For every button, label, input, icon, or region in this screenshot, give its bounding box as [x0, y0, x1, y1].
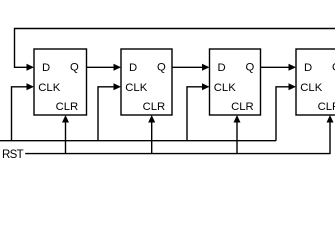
svg-text:CLK: CLK: [125, 82, 147, 94]
D flip-flop FF3: [210, 49, 261, 115]
wire: RST net to FF4 CLR: [25, 115, 333, 154]
wire: clock bus riser to FF2 CLK: [98, 83, 121, 140]
wire: FF3 Q to FF4 D: [261, 64, 297, 71]
svg-text:RST: RST: [2, 149, 24, 161]
wire: FF1 Q to FF2 D: [87, 64, 122, 71]
wire: clock bus riser to FF1 CLK: [12, 83, 35, 140]
svg-text:CLR: CLR: [318, 101, 335, 113]
svg-text:CLK: CLK: [38, 82, 60, 94]
svg-text:CLR: CLR: [56, 101, 79, 113]
svg-text:D: D: [42, 62, 50, 74]
svg-text:D: D: [129, 62, 137, 74]
svg-text:Q: Q: [246, 62, 255, 74]
wire: FF2 Q to FF3 D: [172, 64, 210, 71]
wire: clock bus riser to FF4 CLK: [276, 83, 296, 140]
D flip-flop FF4 (clipped at right edge): [296, 49, 335, 115]
svg-text:CLK: CLK: [300, 82, 322, 94]
svg-text:CLK: CLK: [214, 82, 236, 94]
wire: RST riser to FF3 CLR: [234, 115, 241, 154]
svg-text:CLR: CLR: [231, 101, 254, 113]
svg-text:Q: Q: [157, 62, 166, 74]
svg-text:D: D: [304, 62, 312, 74]
D flip-flop FF1: [34, 49, 87, 115]
svg-text:Q: Q: [70, 62, 79, 74]
wire: clock bus riser to FF3 CLK: [187, 83, 210, 140]
wire: clock bus (from off-screen left): [0, 140, 276, 142]
D flip-flop FF2: [121, 49, 172, 115]
svg-text:D: D: [218, 62, 226, 74]
wire: RST riser to FF1 CLR: [62, 115, 69, 154]
svg-text:CLR: CLR: [143, 101, 166, 113]
wire: RST riser to FF2 CLR: [148, 115, 155, 154]
wire: feedback from FF4 Q (off-screen right) to FF1 D: [15, 29, 335, 71]
